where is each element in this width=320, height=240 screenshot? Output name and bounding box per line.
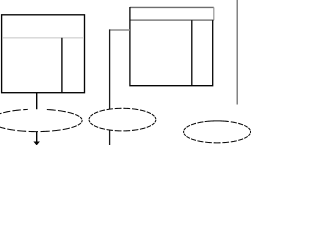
ellipse E3 white fill bbox=[184, 121, 251, 143]
B2 title band right edge (light) bbox=[213, 7, 215, 20]
B2 main border (left, bottom, right) bbox=[130, 7, 213, 86]
standalone vertical line (right) bbox=[236, 0, 238, 105]
connector from B1 down to arrow bbox=[36, 93, 38, 142]
arrowhead (points down) bbox=[33, 142, 40, 146]
node box B2 (middle rectangle) fill bbox=[130, 7, 214, 85]
separator line in B1 bbox=[2, 37, 84, 39]
ellipse E1 dashed outline bbox=[0, 109, 82, 131]
separator line in B2 bbox=[130, 19, 214, 21]
inner divider in B1 bbox=[61, 38, 63, 92]
ellipse E1 white fill bbox=[0, 109, 82, 131]
connector elbow from B2 (horizontal segment) bbox=[110, 29, 130, 31]
connector vertical through ellipse E2 bbox=[109, 29, 111, 145]
ellipse E2 white fill bbox=[89, 108, 156, 131]
ellipse E3 dashed outline bbox=[184, 121, 251, 143]
B2 title band top edge (light) bbox=[130, 6, 214, 8]
inner divider in B2 bbox=[191, 20, 193, 86]
node box B1 (left rectangle) bbox=[2, 15, 85, 93]
ellipse E2 dashed outline bbox=[89, 108, 156, 131]
